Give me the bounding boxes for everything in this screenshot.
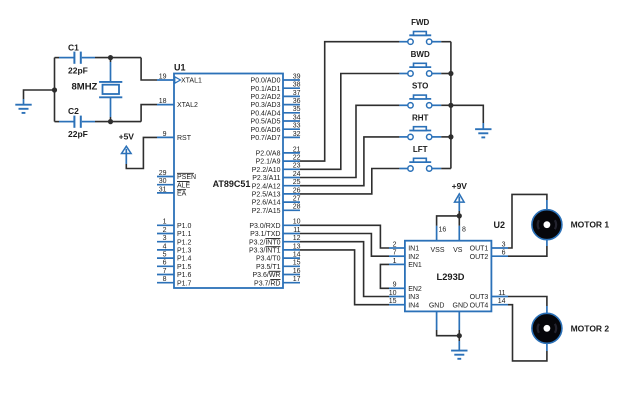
IC U1 AT89C51 body — [174, 74, 283, 289]
svg-text:MOTOR 1: MOTOR 1 — [571, 220, 610, 230]
svg-text:11: 11 — [293, 227, 300, 234]
svg-text:OUT2: OUT2 — [470, 254, 489, 261]
svg-text:XTAL2: XTAL2 — [177, 102, 198, 109]
svg-text:4: 4 — [163, 243, 167, 250]
label AT89C51 part value — [213, 179, 251, 189]
svg-text:IN4: IN4 — [408, 302, 419, 309]
svg-text:2: 2 — [163, 227, 167, 234]
svg-text:P1.5: P1.5 — [177, 264, 192, 271]
U1 pin 27 P2.6/A14 — [252, 196, 301, 207]
svg-text:30: 30 — [159, 178, 167, 185]
ground (button bus) — [475, 129, 491, 137]
label FWD — [411, 18, 429, 27]
push button STO — [399, 95, 441, 108]
svg-text:OUT4: OUT4 — [470, 302, 489, 309]
svg-text:C1: C1 — [68, 43, 79, 53]
svg-text:C2: C2 — [68, 106, 79, 116]
U1 pin 10 P3.0/RXD — [249, 219, 300, 230]
U1 pin 34 P0.5/AD5 — [251, 114, 301, 125]
svg-text:P1.6: P1.6 — [177, 272, 192, 279]
svg-text:31: 31 — [159, 186, 167, 193]
wire OUT3 to MOTOR 2 top — [508, 297, 547, 314]
wire OUT2 to MOTOR 1 bottom — [508, 239, 547, 256]
svg-text:P2.0/A8: P2.0/A8 — [256, 151, 281, 158]
IC U2 L293D body — [405, 241, 492, 312]
label 22pF (C2 value) — [68, 129, 88, 139]
svg-text:P0.0/AD0: P0.0/AD0 — [251, 78, 281, 85]
svg-text:15: 15 — [293, 260, 301, 267]
power +9V label — [452, 181, 468, 191]
svg-text:P0.6/AD6: P0.6/AD6 — [251, 127, 281, 134]
label MOTOR 2 — [571, 323, 610, 333]
svg-text:10: 10 — [389, 290, 397, 297]
svg-text:39: 39 — [293, 73, 301, 80]
label 22pF (C1 value) — [68, 66, 88, 76]
svg-text:8: 8 — [462, 226, 466, 233]
svg-text:15: 15 — [389, 298, 397, 305]
svg-text:32: 32 — [293, 131, 301, 138]
svg-text:38: 38 — [293, 82, 301, 89]
U1 pin 19 XTAL1 — [157, 73, 202, 84]
svg-text:IN3: IN3 — [408, 294, 419, 301]
U1 pin 39 P0.0/AD0 — [251, 73, 301, 84]
svg-text:P2.1/A9: P2.1/A9 — [256, 159, 281, 166]
svg-text:RHT: RHT — [412, 113, 429, 122]
power +5V arrow symbol — [122, 146, 132, 164]
U1 pin 29 PSEN — [157, 170, 196, 181]
wire +9V to VS and VSS — [437, 211, 460, 226]
label U2 reference designator — [494, 220, 506, 230]
svg-text:BWD: BWD — [411, 50, 430, 59]
svg-text:5: 5 — [163, 252, 167, 259]
svg-text:ALE: ALE — [177, 182, 191, 189]
svg-text:RST: RST — [177, 135, 192, 142]
svg-text:1: 1 — [163, 219, 167, 226]
U1 pin 38 P0.1/AD1 — [251, 82, 301, 93]
push button FWD — [399, 32, 441, 45]
label C2 — [68, 106, 79, 116]
U2 pin 11 OUT3 — [470, 290, 508, 301]
U2 pin 6 OUT2 — [470, 250, 508, 261]
svg-text:P1.4: P1.4 — [177, 256, 192, 263]
wire P2.3 to button STO — [300, 105, 399, 177]
wire P2.2 to button BWD — [300, 74, 399, 170]
U1 pin 13 P3.3/INT1 — [249, 243, 301, 254]
wire button BWD to ground bus — [441, 73, 451, 75]
U2 pin GND (right) — [453, 302, 469, 330]
U2 pin 8 VS — [453, 226, 466, 254]
svg-text:XTAL1: XTAL1 — [181, 78, 202, 85]
U1 pin 26 P2.5/A13 — [252, 187, 301, 198]
U1 pin 7 P1.6 — [157, 268, 192, 279]
U1 pin 23 P2.2/A10 — [252, 163, 301, 174]
junction bus RHT — [448, 134, 453, 139]
svg-text:P1.0: P1.0 — [177, 223, 192, 230]
svg-text:P2.2/A10: P2.2/A10 — [252, 167, 281, 174]
label BWD — [411, 50, 430, 59]
U1 pin 6 P1.5 — [157, 260, 192, 271]
svg-text:VS: VS — [453, 247, 463, 254]
svg-text:P0.1/AD1: P0.1/AD1 — [251, 86, 281, 93]
U2 pin 1 EN1 — [389, 258, 422, 269]
U1 pin 9 RST — [157, 131, 192, 142]
svg-text:P3.2/INT0: P3.2/INT0 — [249, 239, 281, 246]
svg-text:P0.7/AD7: P0.7/AD7 — [251, 135, 281, 142]
svg-text:34: 34 — [293, 114, 301, 121]
U2 pin 9 EN2 — [389, 282, 422, 293]
svg-text:22pF: 22pF — [68, 129, 88, 139]
svg-text:6: 6 — [163, 260, 167, 267]
U2 pin 3 OUT1 — [470, 241, 508, 252]
U2 pin 16 VSS — [430, 226, 446, 254]
svg-text:13: 13 — [293, 243, 301, 250]
U1 pin 16 P3.6/WR — [252, 268, 300, 279]
svg-text:P1.2: P1.2 — [177, 239, 192, 246]
svg-text:VSS: VSS — [430, 247, 444, 254]
svg-text:24: 24 — [293, 171, 301, 178]
junction U2 ground node — [457, 333, 462, 338]
wire bus to ground symbol — [451, 105, 483, 129]
svg-text:P3.0/RXD: P3.0/RXD — [249, 223, 280, 230]
U1 pin 36 P0.3/AD3 — [251, 98, 301, 109]
svg-text:P0.4/AD4: P0.4/AD4 — [251, 110, 281, 117]
label STO — [412, 82, 428, 91]
svg-text:P1.3: P1.3 — [177, 248, 192, 255]
U1 pin 25 P2.4/A12 — [252, 179, 301, 190]
push button BWD — [399, 63, 441, 76]
svg-text:9: 9 — [393, 282, 397, 289]
U1 pin 35 P0.4/AD4 — [251, 106, 301, 117]
wire P3.3/INT1 to IN4 — [300, 250, 389, 305]
svg-text:P3.6/WR: P3.6/WR — [252, 272, 280, 279]
svg-text:+9V: +9V — [452, 181, 468, 191]
svg-text:16: 16 — [293, 268, 301, 275]
svg-text:P0.3/AD3: P0.3/AD3 — [251, 102, 281, 109]
svg-text:14: 14 — [498, 298, 506, 305]
wire button STO to ground bus — [441, 104, 451, 106]
power +9V arrow symbol — [455, 194, 465, 211]
svg-text:P3.7/RD: P3.7/RD — [254, 280, 280, 287]
svg-text:IN1: IN1 — [408, 246, 419, 253]
junction crystal top — [108, 55, 113, 62]
svg-text:P3.5/T1: P3.5/T1 — [256, 264, 281, 271]
svg-text:21: 21 — [293, 146, 301, 153]
svg-text:LFT: LFT — [413, 145, 428, 154]
svg-text:29: 29 — [159, 170, 167, 177]
svg-text:33: 33 — [293, 123, 301, 130]
svg-text:GND: GND — [453, 302, 469, 309]
svg-text:2: 2 — [393, 241, 397, 248]
wire U2 GND pins to ground — [437, 330, 460, 351]
U1 pin 30 ALE — [157, 178, 191, 189]
wire left vertical joining C1 and C2 — [54, 58, 56, 122]
svg-text:P2.6/A14: P2.6/A14 — [252, 200, 281, 207]
push button LFT — [399, 158, 441, 171]
svg-text:GND: GND — [429, 302, 445, 309]
wire P2.1 to button FWD — [300, 42, 399, 161]
svg-text:11: 11 — [498, 290, 505, 297]
wire button RHT to ground bus — [441, 136, 451, 138]
svg-text:P0.5/AD5: P0.5/AD5 — [251, 119, 281, 126]
motor MOTOR 1 — [532, 210, 562, 240]
U1 pin 12 P3.2/INT0 — [249, 235, 301, 246]
power +5V label — [119, 131, 135, 141]
svg-text:23: 23 — [293, 163, 301, 170]
wire ground bus vertical — [450, 42, 452, 169]
svg-text:OUT3: OUT3 — [470, 294, 489, 301]
wire P3.2/INT0 to IN3 — [300, 242, 389, 297]
svg-text:EN2: EN2 — [408, 286, 422, 293]
U1 pin 32 P0.7/AD7 — [251, 131, 301, 142]
wire P3.1/TXD to IN2 — [300, 234, 389, 257]
svg-text:8MHZ: 8MHZ — [72, 82, 98, 93]
svg-text:P2.3/A11: P2.3/A11 — [252, 175, 280, 182]
U2 pin 7 IN2 — [389, 250, 419, 261]
label C1 — [68, 43, 79, 53]
wire P3.0/RXD to IN1 — [300, 225, 389, 248]
svg-text:U1: U1 — [174, 63, 186, 73]
svg-text:AT89C51: AT89C51 — [213, 179, 251, 189]
svg-text:U2: U2 — [494, 220, 506, 230]
wire top rail C1 to XTAL1 — [95, 58, 157, 80]
U1 pin 31 EA — [157, 186, 187, 197]
svg-text:36: 36 — [293, 98, 301, 105]
push button RHT — [399, 127, 441, 140]
svg-text:26: 26 — [293, 187, 301, 194]
svg-text:37: 37 — [293, 90, 301, 97]
svg-text:10: 10 — [293, 219, 301, 226]
svg-text:28: 28 — [293, 204, 301, 211]
svg-text:OUT1: OUT1 — [470, 246, 489, 253]
U1 pin 33 P0.6/AD6 — [251, 123, 301, 134]
svg-text:17: 17 — [293, 276, 301, 283]
svg-text:PSEN: PSEN — [177, 174, 196, 181]
junction on left vertical — [52, 87, 57, 92]
svg-text:12: 12 — [293, 235, 301, 242]
wire button LFT to ground bus — [441, 168, 451, 170]
svg-text:P3.3/INT1: P3.3/INT1 — [249, 248, 281, 255]
svg-text:STO: STO — [412, 82, 428, 91]
svg-text:P0.2/AD2: P0.2/AD2 — [251, 94, 281, 101]
svg-text:P3.1/TXD: P3.1/TXD — [250, 231, 280, 238]
junction bus BWD — [448, 71, 453, 76]
svg-text:EN1: EN1 — [408, 262, 422, 269]
U1 pin 21 P2.0/A8 — [256, 146, 301, 157]
junction +9V node — [457, 213, 462, 218]
U1 pin 37 P0.2/AD2 — [251, 90, 301, 101]
U1 pin 3 P1.2 — [157, 235, 192, 246]
svg-text:EA: EA — [177, 191, 187, 198]
U1 pin 15 P3.5/T1 — [256, 260, 301, 271]
U1 pin 14 P3.4/T0 — [256, 252, 301, 263]
svg-text:P1.7: P1.7 — [177, 280, 192, 287]
label L293D part value — [437, 272, 465, 282]
U1 pin 11 P3.1/TXD — [250, 227, 300, 238]
U1 pin 4 P1.3 — [157, 243, 192, 254]
svg-text:7: 7 — [393, 250, 397, 257]
svg-text:P2.4/A12: P2.4/A12 — [252, 183, 281, 190]
U2 pin GND (left) — [429, 302, 445, 330]
wire bottom rail C2 to XTAL2 — [95, 105, 157, 122]
U1 pin 22 P2.1/A9 — [256, 155, 301, 166]
svg-text:FWD: FWD — [411, 18, 429, 27]
svg-text:35: 35 — [293, 106, 301, 113]
wire OUT1 to MOTOR 1 top — [508, 194, 547, 248]
U2 pin 2 IN1 — [389, 241, 419, 252]
wire button FWD to ground bus — [441, 41, 451, 43]
capacitor C2 — [55, 116, 96, 128]
label RHT — [412, 113, 429, 122]
svg-text:8: 8 — [163, 276, 167, 283]
U2 pin 14 OUT4 — [470, 298, 508, 309]
svg-text:14: 14 — [293, 252, 301, 259]
svg-text:P2.5/A13: P2.5/A13 — [252, 192, 281, 199]
capacitor C1 — [55, 52, 96, 64]
U1 pin 5 P1.4 — [157, 252, 192, 263]
label U1 reference designator — [174, 63, 186, 73]
crystal X1 8MHZ — [99, 62, 122, 117]
U1 pin 18 XTAL2 — [157, 98, 198, 109]
wire to ground from crystal net — [24, 90, 55, 105]
svg-text:7: 7 — [163, 268, 167, 275]
svg-text:IN2: IN2 — [408, 254, 419, 261]
svg-text:P2.7/A15: P2.7/A15 — [252, 208, 281, 215]
U1 pin 1 P1.0 — [157, 219, 192, 230]
svg-text:3: 3 — [163, 235, 167, 242]
svg-text:25: 25 — [293, 179, 301, 186]
svg-text:+5V: +5V — [119, 131, 135, 141]
wire P2.4 to button RHT — [300, 137, 399, 186]
junction crystal bottom — [108, 117, 113, 124]
wire EN1 to EN2 — [380, 264, 389, 288]
svg-text:19: 19 — [159, 73, 167, 80]
svg-text:22: 22 — [293, 155, 301, 162]
motor MOTOR 2 — [532, 313, 562, 343]
ground (crystal net) — [15, 105, 31, 113]
svg-text:L293D: L293D — [437, 272, 465, 282]
wire P2.5 to button LFT — [300, 169, 399, 194]
svg-text:6: 6 — [502, 250, 506, 257]
svg-text:1: 1 — [393, 258, 397, 265]
svg-text:P1.1: P1.1 — [177, 231, 192, 238]
U1 pin 8 P1.7 — [157, 276, 192, 287]
svg-text:22pF: 22pF — [68, 66, 88, 76]
label LFT — [413, 145, 428, 154]
U1 pin 28 P2.7/A15 — [252, 204, 301, 215]
svg-text:18: 18 — [159, 98, 167, 105]
U1 pin 24 P2.3/A11 — [252, 171, 300, 182]
label MOTOR 1 — [571, 220, 610, 230]
ground (U2) — [451, 351, 467, 359]
svg-text:3: 3 — [502, 241, 506, 248]
svg-text:MOTOR 2: MOTOR 2 — [571, 323, 610, 333]
wire OUT4 to MOTOR 2 bottom — [508, 305, 547, 361]
U1 pin 2 P1.1 — [157, 227, 192, 238]
svg-text:27: 27 — [293, 196, 301, 203]
svg-text:P3.4/T0: P3.4/T0 — [256, 256, 281, 263]
junction bus STO — [448, 103, 453, 108]
svg-text:9: 9 — [163, 131, 167, 138]
U1 pin 17 P3.7/RD — [254, 276, 301, 287]
svg-text:16: 16 — [439, 226, 447, 233]
label 8MHZ (crystal value) — [72, 82, 98, 93]
U2 pin 15 IN4 — [389, 298, 419, 309]
U2 pin 10 IN3 — [389, 290, 419, 301]
wire +5V to RST — [126, 137, 157, 168]
